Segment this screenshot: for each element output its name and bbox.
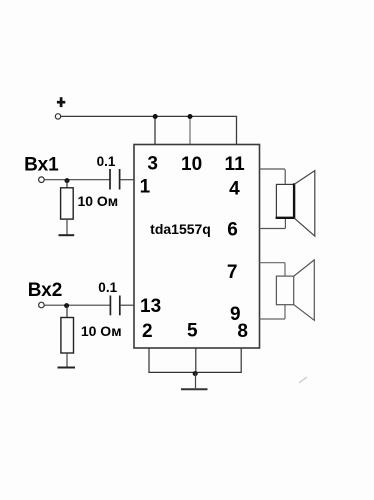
svg-text:6: 6	[227, 220, 238, 241]
svg-text:2: 2	[142, 321, 153, 342]
svg-text:11: 11	[225, 154, 246, 175]
svg-text:tda1557q: tda1557q	[150, 221, 211, 237]
svg-text:7: 7	[227, 262, 238, 283]
svg-text:3: 3	[147, 153, 158, 174]
svg-text:Вх1: Вх1	[24, 155, 59, 176]
svg-text:10 Ом: 10 Ом	[81, 323, 122, 339]
svg-text:10: 10	[181, 154, 202, 175]
svg-text:4: 4	[229, 179, 240, 200]
svg-text:8: 8	[237, 321, 248, 342]
svg-text:0.1: 0.1	[97, 154, 116, 169]
svg-text:0.1: 0.1	[98, 280, 117, 295]
svg-text:1: 1	[140, 177, 151, 198]
svg-text:Вх2: Вх2	[28, 280, 63, 301]
svg-text:13: 13	[140, 296, 161, 317]
svg-text:10 Ом: 10 Ом	[77, 193, 118, 209]
svg-text:5: 5	[187, 321, 198, 342]
